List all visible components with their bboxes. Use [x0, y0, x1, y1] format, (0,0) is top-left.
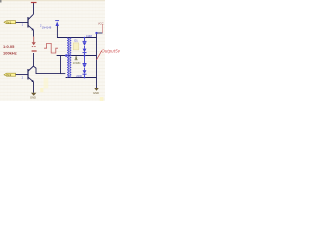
- power line red: [102, 24, 104, 33]
- svg-text:GND: GND: [93, 91, 99, 95]
- zener small: [75, 56, 78, 60]
- wire Q2 collector branch: [34, 66, 61, 73]
- svg-text:100kHz: 100kHz: [3, 50, 17, 55]
- wire stub to winding bottom: [61, 73, 66, 75]
- wire Q1 collector up: [33, 3, 35, 14]
- svg-text:Output5v: Output5v: [101, 49, 120, 54]
- svg-text:IN1: IN1: [6, 20, 11, 24]
- diode stack bottom: D3: [83, 56, 87, 78]
- wire diode to rung: [56, 26, 58, 38]
- svg-text:GND: GND: [30, 96, 36, 100]
- svg-text:1:0.05: 1:0.05: [3, 44, 15, 49]
- transformer winding right: [67, 38, 69, 77]
- svg-text:VCC: VCC: [98, 21, 104, 25]
- secondary coil left: [70, 38, 72, 77]
- junction dot top: [84, 37, 86, 39]
- diode stack top: D2: [83, 38, 87, 56]
- signal ground right: [94, 88, 98, 91]
- svg-text:2200: 2200: [76, 75, 82, 78]
- label small box: [73, 43, 79, 50]
- port IN1: [4, 20, 16, 24]
- power ground PGND1 arrow: [32, 37, 36, 47]
- wire base Q1: [16, 22, 28, 24]
- right rail wire: [96, 33, 98, 78]
- sheet background: [0, 0, 105, 101]
- wire rail down to ground: [96, 78, 98, 89]
- pulse annotation: [44, 43, 58, 53]
- power bar VCC top: [31, 2, 37, 4]
- leader line: [97, 51, 102, 60]
- diode D5: [55, 21, 59, 26]
- bottom rung wire: [66, 77, 97, 79]
- wire Q2 collector up: [33, 53, 35, 66]
- winding tap junction: [65, 54, 68, 57]
- junction dot bottom: [84, 77, 86, 79]
- port IN2: [4, 73, 16, 77]
- svg-text:4148: 4148: [86, 34, 92, 38]
- junction dot vcc: [95, 32, 97, 34]
- wire base Q2: [16, 74, 28, 76]
- transistor Q1: [28, 14, 34, 30]
- power bar VCC mid: [32, 50, 37, 52]
- signal ground GND: [31, 93, 36, 96]
- svg-text:IN2: IN2: [6, 73, 11, 77]
- wire Q2 emitter down: [33, 82, 35, 93]
- sheet corner mark: [0, 0, 105, 2]
- transistor Q2: [28, 66, 34, 82]
- wire vertical to mid rung: [60, 56, 62, 74]
- svg-text:D1: D1: [74, 38, 78, 42]
- wire Q1 emitter down: [33, 30, 35, 36]
- faint yellow artifacts: [44, 78, 49, 89]
- top rung wire: [57, 37, 97, 39]
- VCC wire top right: [97, 32, 103, 34]
- junction dot mid: [84, 55, 86, 57]
- middle rung wire: [57, 55, 97, 57]
- svg-text:2CW54: 2CW54: [73, 63, 81, 65]
- red annotation text: [3, 44, 17, 55]
- svg-text:1N4148: 1N4148: [42, 25, 52, 29]
